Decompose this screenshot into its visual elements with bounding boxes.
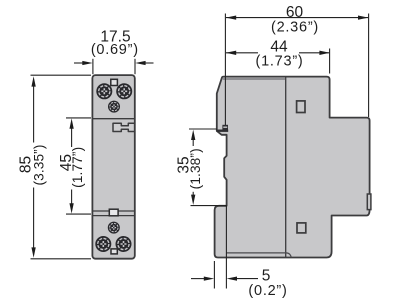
dim 17.5 extension line left bbox=[92, 59, 94, 74]
side marker square lower bbox=[297, 223, 306, 233]
top edge double line bbox=[223, 78, 286, 80]
screw terminal top-middle small bbox=[108, 101, 120, 113]
dim 45 extension line top bbox=[66, 117, 91, 119]
device body side view outline bbox=[215, 77, 370, 258]
dim 85 line upper segment bbox=[33, 84, 35, 143]
dim 60 arrow right bbox=[358, 15, 368, 19]
dim 5 arrow left bbox=[191, 278, 204, 280]
svg-text:(2.36”): (2.36”) bbox=[271, 19, 319, 35]
svg-text:(0.2”): (0.2”) bbox=[248, 283, 287, 299]
dim 45 arrow down bbox=[69, 203, 73, 213]
dim 35 line lower segment bbox=[192, 192, 194, 197]
dim 17.5 arrow left bbox=[74, 62, 84, 64]
dim 17.5 arrow right bbox=[144, 62, 154, 64]
dim 85 arrow up bbox=[31, 76, 35, 86]
dim 45 extension line bottom bbox=[66, 213, 91, 215]
dim 60 line bbox=[226, 17, 368, 19]
dim 85 arrow down bbox=[31, 247, 35, 257]
dim 45 arrow up bbox=[69, 118, 73, 128]
dim 44 line right segment bbox=[299, 52, 329, 54]
bottom terminal marker square bbox=[111, 249, 117, 254]
dim 5 extension line right bbox=[225, 205, 227, 289]
dim 17.5 extension line right bbox=[134, 59, 136, 74]
screw terminal top-right bbox=[116, 83, 132, 99]
top terminal marker square bbox=[111, 79, 118, 85]
dim 35 arrow up bbox=[191, 130, 195, 140]
separator line upper bbox=[93, 118, 135, 120]
dim 35 line upper segment bbox=[192, 137, 194, 146]
dim 35 arrow down bbox=[191, 195, 195, 205]
dim 85 extension line bottom bbox=[31, 258, 92, 260]
dim 44 extension line right bbox=[329, 49, 331, 74]
dim 85 extension line top bbox=[31, 74, 92, 76]
svg-text:(1.77”): (1.77”) bbox=[70, 147, 85, 188]
dim 45 line lower segment bbox=[71, 190, 73, 207]
mid band marker square bbox=[109, 209, 118, 216]
dim 5 arrow right bbox=[237, 278, 258, 280]
side marker square upper bbox=[297, 101, 305, 113]
dim 44 line left segment bbox=[226, 52, 258, 54]
dim 45 line upper segment bbox=[71, 126, 73, 147]
screw terminal bottom-left bbox=[95, 236, 111, 252]
separator line lower 1 bbox=[93, 210, 135, 212]
screw terminal bottom-middle small bbox=[108, 222, 120, 234]
bottom inner line bbox=[227, 253, 291, 257]
svg-text:(1.38”): (1.38”) bbox=[188, 148, 203, 189]
dim 35 extension line bottom bbox=[191, 205, 227, 207]
dim 44 arrow right bbox=[319, 51, 329, 55]
dim 35 extension line top bbox=[189, 128, 217, 130]
dim 60 extension line right bbox=[368, 14, 370, 118]
DIN clip notch bbox=[216, 129, 228, 131]
svg-text:(1.73”): (1.73”) bbox=[256, 53, 304, 69]
svg-text:(3.35”): (3.35”) bbox=[32, 144, 47, 185]
separator line lower 2 bbox=[93, 215, 135, 217]
dim 85 line lower segment bbox=[33, 188, 35, 251]
dim 5 extension line left bbox=[213, 261, 215, 289]
dim 60 arrow left bbox=[226, 15, 236, 19]
dim 60 extension line left bbox=[224, 14, 226, 126]
svg-text:(0.69”): (0.69”) bbox=[91, 42, 139, 58]
right edge slot bbox=[367, 194, 371, 210]
screw terminal top-left bbox=[96, 83, 112, 99]
screw terminal bottom-right bbox=[116, 236, 132, 252]
front face line bbox=[285, 77, 287, 257]
svg-text:5: 5 bbox=[262, 267, 271, 284]
device body front view bbox=[92, 75, 134, 259]
dim 44 arrow left bbox=[226, 51, 236, 55]
DIN clip front (bone shape) bbox=[113, 123, 135, 131]
